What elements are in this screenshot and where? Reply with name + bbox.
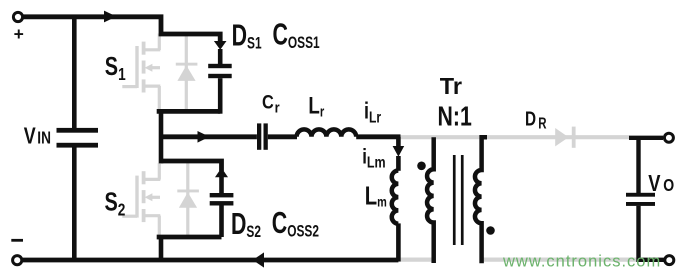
current arrow iLr direction xyxy=(198,131,210,143)
transformer secondary winding xyxy=(475,137,487,263)
wire: D_S1 to C_OSS1 xyxy=(218,49,223,64)
inductor Lr xyxy=(297,129,357,136)
wire: S2 top (midpoint to D_S2) xyxy=(161,161,222,171)
input terminal - (bottom-left) xyxy=(13,256,22,265)
capacitor Cr xyxy=(257,123,261,149)
diode arrow D_S1 xyxy=(214,41,227,50)
svg-text:Tr: Tr xyxy=(440,73,462,99)
wire: node to Lm xyxy=(396,137,401,147)
svg-text:VO: VO xyxy=(648,171,674,197)
input terminal + (top-left) xyxy=(13,12,22,21)
transistor S2 (gray MOSFET symbol) xyxy=(122,163,160,240)
current arrow iLm direction xyxy=(393,146,405,157)
output terminal bottom-right xyxy=(665,256,674,265)
secondary polarity dot xyxy=(486,226,495,235)
svg-text:Cr: Cr xyxy=(262,91,280,115)
svg-text:DS1: DS1 xyxy=(232,18,262,53)
body diode of S1 (gray) xyxy=(176,34,198,111)
wire: D_S2 to C_OSS2 xyxy=(219,176,224,193)
svg-text:S1: S1 xyxy=(105,52,126,85)
transformer primary winding xyxy=(427,137,434,263)
wire: output cap branch bottom xyxy=(639,206,665,260)
svg-text:www.cntronics.com: www.cntronics.com xyxy=(502,253,661,271)
wire: midpoint node of half-bridge xyxy=(157,109,221,114)
label - xyxy=(11,239,23,242)
gray wire: bottom rail segment (Lm to primary) xyxy=(398,258,432,262)
transformer core xyxy=(453,155,456,245)
wire V_IN branch bottom xyxy=(72,148,77,261)
svg-text:DS2: DS2 xyxy=(231,206,261,241)
wire: bottom rail xyxy=(23,258,399,263)
wire: output cap branch top xyxy=(636,138,640,193)
capacitor C_OSS2 xyxy=(210,193,234,197)
wire: output top xyxy=(629,136,663,140)
wire: S2 source to bottom rail xyxy=(159,237,164,260)
wire: Lm to bottom rail xyxy=(396,223,401,261)
capacitor V_IN branch wire top xyxy=(72,17,77,129)
svg-text:COSS2: COSS2 xyxy=(272,205,319,241)
inductor Lm xyxy=(392,171,399,224)
svg-text:Lm: Lm xyxy=(365,181,387,210)
svg-text:VIN: VIN xyxy=(24,123,51,149)
svg-text:iLr: iLr xyxy=(364,98,382,125)
body diode of S2 (gray) xyxy=(177,163,199,236)
svg-text:Lr: Lr xyxy=(308,92,324,120)
primary polarity dot xyxy=(417,162,426,171)
svg-text:+: + xyxy=(14,24,24,44)
output terminal top-right xyxy=(664,133,673,142)
diode arrow D_S2 xyxy=(215,168,228,178)
gray wire: resonant node to transformer primary and D_R branch xyxy=(399,135,629,139)
svg-text:COSS1: COSS1 xyxy=(273,17,320,53)
capacitor Vo xyxy=(626,193,655,197)
wire: Cr to Lr xyxy=(268,134,297,139)
svg-text:iLm: iLm xyxy=(362,146,385,172)
wire: S2 source wire xyxy=(157,235,222,240)
wire: midpoint vertical xyxy=(159,109,164,163)
capacitor VIN xyxy=(57,128,99,133)
current arrow on bottom rail xyxy=(253,252,264,267)
svg-text:DR: DR xyxy=(525,107,547,132)
svg-text:N:1: N:1 xyxy=(438,101,472,133)
svg-text:S2: S2 xyxy=(105,187,126,220)
current arrow on top rail xyxy=(104,11,117,23)
wire: resonant branch (midpoint to Cr) xyxy=(161,134,257,139)
gray wire: bottom rail segment (secondary to output) xyxy=(482,258,638,262)
transistor S1 (gray MOSFET symbol) xyxy=(122,34,160,111)
wire: top rail and S1 drain xyxy=(24,17,221,43)
capacitor C_OSS1 xyxy=(208,64,232,68)
diode D_R (gray) xyxy=(555,128,568,146)
wire: Lr to node xyxy=(356,134,400,139)
